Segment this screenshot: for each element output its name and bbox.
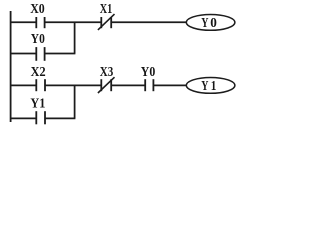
contact Y1 (parallel with X2) — [36, 111, 45, 124]
wire rail to contact X0 — [10, 21, 36, 23]
svg-text:Y0: Y0 — [141, 64, 156, 79]
coil Y1 text — [201, 78, 216, 93]
wire Y0 branch to junction — [45, 53, 76, 55]
svg-text:Y: Y — [201, 15, 208, 30]
wire Y1 branch to junction — [45, 117, 75, 119]
wire X3 to contact Y0 — [111, 84, 145, 86]
svg-text:Y0: Y0 — [31, 31, 45, 46]
contact X1 normally closed — [98, 14, 115, 30]
wire X2 to X3 — [45, 84, 101, 86]
wire rail to contact X2 — [10, 84, 36, 86]
label Y0 rung2 — [141, 64, 156, 79]
wire rail to contact Y0 (parallel branch) — [10, 53, 36, 55]
svg-text:1: 1 — [211, 78, 217, 93]
wire rail to contact Y1 (parallel branch) — [10, 117, 36, 119]
contact Y0 (rung2) — [145, 79, 153, 91]
contact X3 normally closed — [98, 77, 115, 93]
label Y0 branch — [31, 31, 45, 46]
label X3 — [100, 64, 114, 79]
contact X0 — [36, 17, 44, 28]
svg-text:X2: X2 — [31, 64, 46, 79]
label X2 — [31, 64, 46, 79]
label X0 — [30, 1, 45, 16]
contact Y0 (parallel with X0) — [36, 47, 44, 61]
coil Y0 — [186, 15, 235, 31]
label Y1 branch — [30, 96, 45, 111]
wire Y0 contact to coil Y1 — [153, 84, 187, 86]
coil Y0 text — [201, 15, 217, 30]
label X1 — [100, 1, 113, 16]
left power rail — [10, 11, 12, 122]
svg-text:Y: Y — [201, 78, 208, 93]
contact X2 — [36, 79, 45, 91]
branch junction vertical wire rung1 — [74, 22, 76, 53]
svg-text:X0: X0 — [30, 1, 45, 16]
wire X0 to X1 — [45, 21, 101, 23]
coil Y1 — [186, 78, 235, 94]
wire X1 to coil Y0 — [111, 21, 187, 23]
branch junction vertical wire rung2 — [74, 85, 76, 118]
svg-text:X3: X3 — [100, 64, 114, 79]
svg-text:Y1: Y1 — [30, 96, 45, 111]
svg-text:0: 0 — [210, 15, 217, 30]
svg-text:X1: X1 — [100, 1, 113, 16]
